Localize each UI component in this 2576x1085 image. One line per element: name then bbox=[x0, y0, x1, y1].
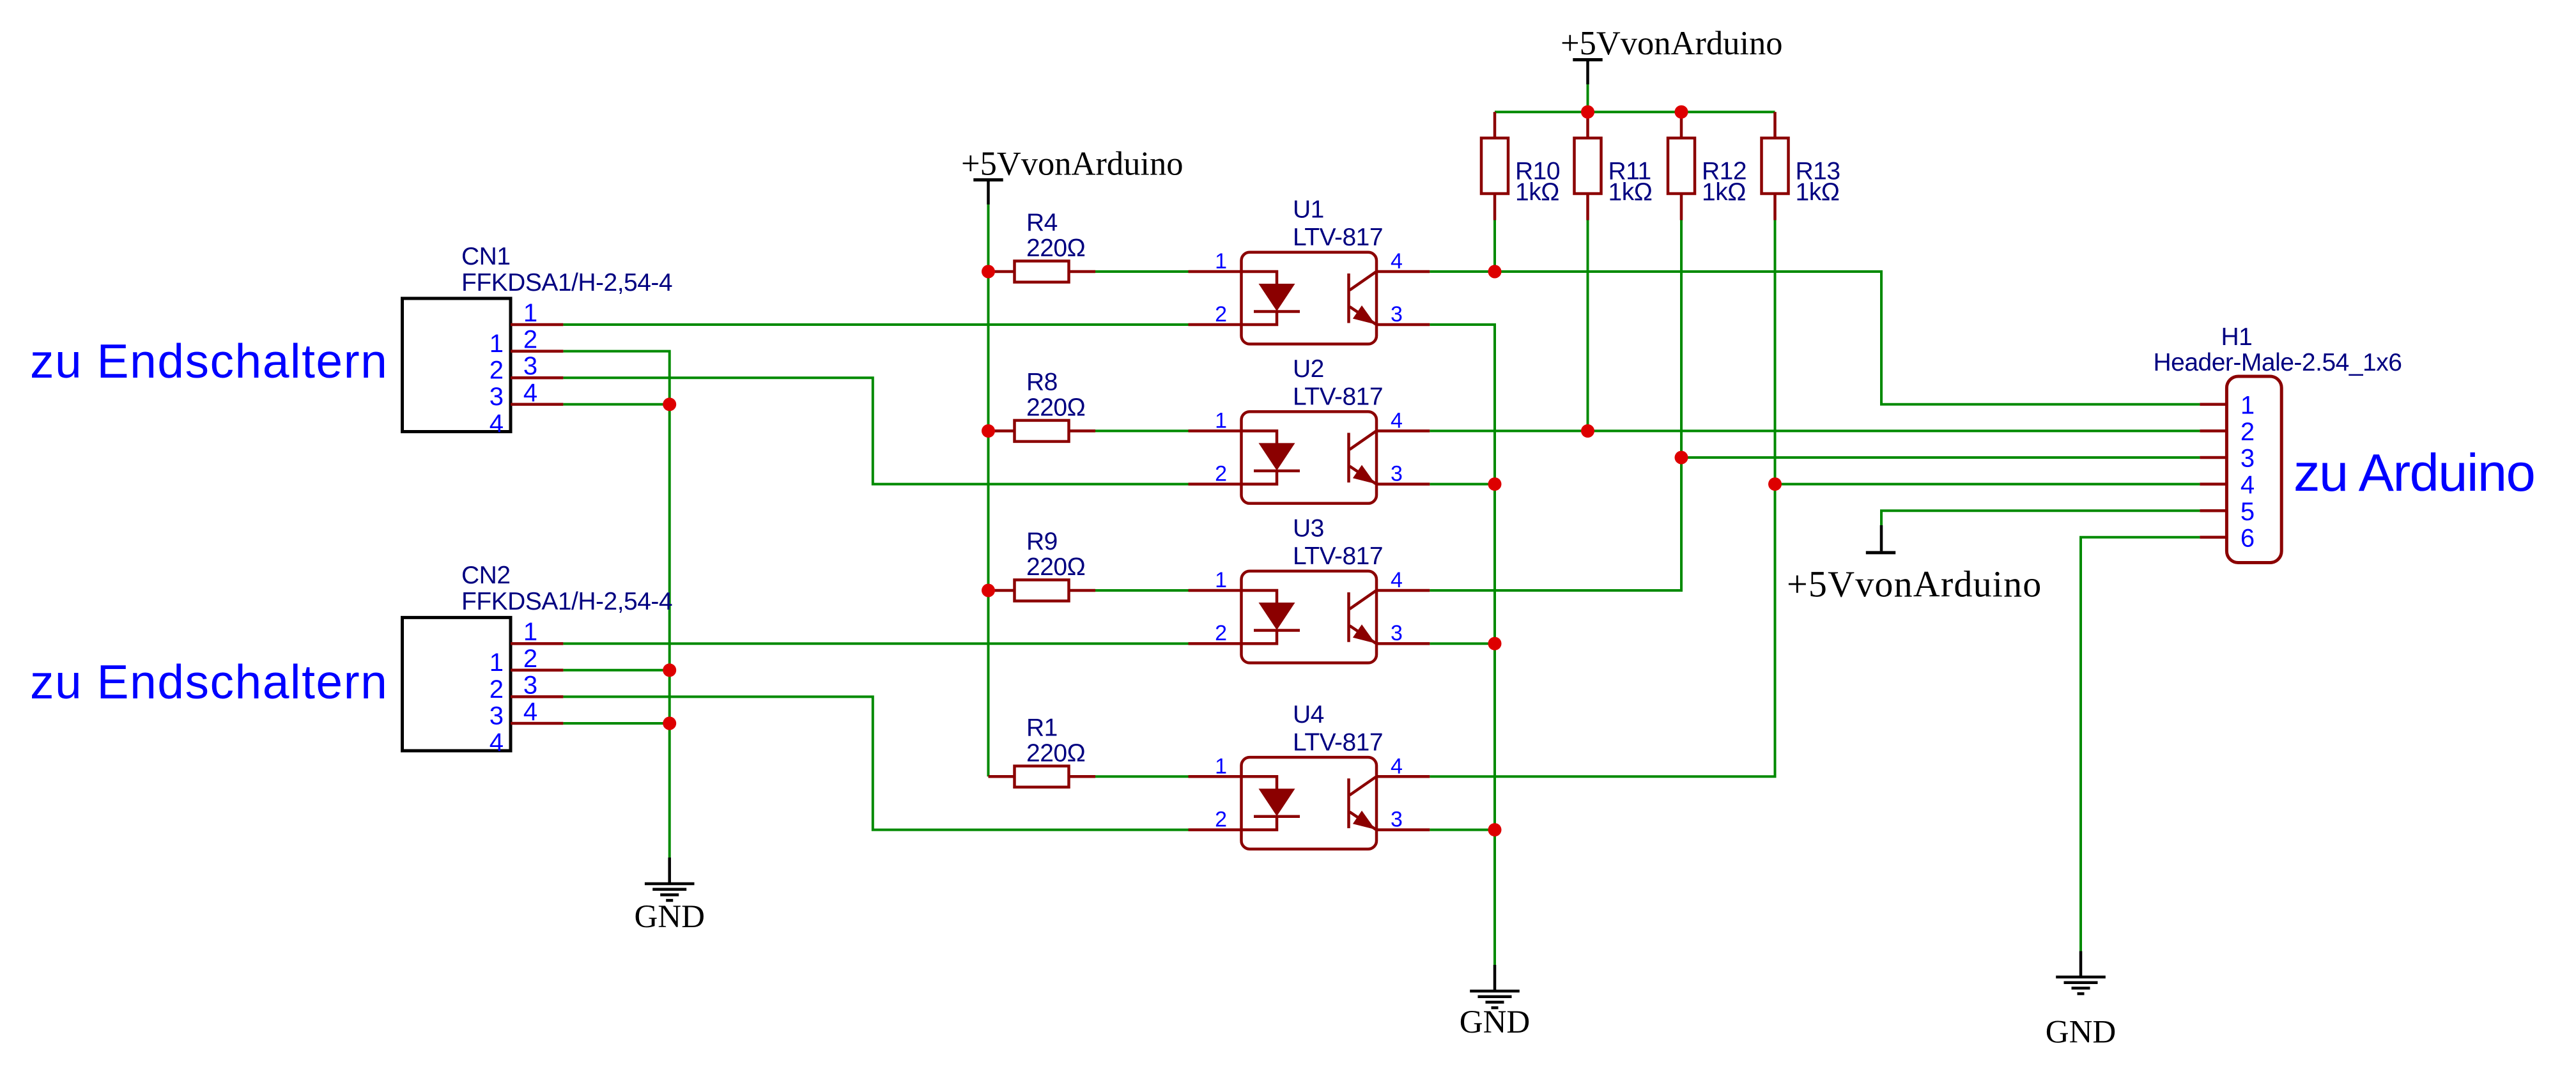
resistor R4 220&#937; (horizontal) bbox=[989, 261, 1096, 282]
svg-text:2: 2 bbox=[1215, 462, 1227, 486]
junction GND rail / U4 pin3 bbox=[1488, 823, 1502, 836]
label R1 value bbox=[1026, 714, 1085, 767]
svg-text:220Ω: 220Ω bbox=[1026, 394, 1085, 422]
wire top +5V stub bbox=[1587, 84, 1589, 112]
svg-text:1: 1 bbox=[1215, 754, 1227, 778]
wire R10 lower lead to U1 pin4 net bbox=[1493, 220, 1496, 272]
svg-text:2: 2 bbox=[1215, 302, 1227, 327]
svg-text:4: 4 bbox=[1391, 568, 1403, 592]
svg-text:zu Endschaltern: zu Endschaltern bbox=[30, 655, 388, 709]
wire R1 out to U4 pin1 bbox=[1095, 775, 1189, 778]
svg-text:4: 4 bbox=[1391, 249, 1403, 273]
junction GND rail / U2 pin3 bbox=[1488, 477, 1502, 491]
svg-text:3: 3 bbox=[1391, 462, 1403, 486]
pin leads U4 bbox=[1189, 776, 1430, 829]
svg-text:R4: R4 bbox=[1026, 209, 1058, 236]
svg-text:4: 4 bbox=[523, 379, 537, 407]
svg-text:U1: U1 bbox=[1293, 196, 1324, 224]
pin leads U2 bbox=[1189, 431, 1430, 484]
wire U3 pin4 net to H1 pin3 bbox=[1430, 458, 2200, 590]
resistor R12 1k&#937; (vertical) bbox=[1668, 112, 1695, 220]
pin leads U3 bbox=[1189, 590, 1430, 643]
junction +5V rail / R8 bbox=[982, 424, 995, 438]
label R10 value bbox=[1515, 158, 1560, 206]
label R9 value bbox=[1026, 528, 1085, 581]
svg-text:+5VvonArduino: +5VvonArduino bbox=[1787, 563, 2042, 604]
svg-text:1: 1 bbox=[1215, 568, 1227, 592]
svg-text:GND: GND bbox=[634, 899, 705, 935]
wire left GND stub (black) bbox=[668, 858, 671, 884]
svg-text:CN1: CN1 bbox=[461, 243, 511, 270]
wire R4 out to U1 pin1 bbox=[1095, 270, 1189, 273]
pin leads CN1 bbox=[511, 325, 563, 404]
label U1 LTV-817 bbox=[1293, 196, 1383, 252]
wire U4 pin4 net to H1 pin4 bbox=[1430, 484, 2200, 777]
wire U1 pin4 net to H1 pin1 bbox=[1430, 272, 2200, 404]
optocoupler U1 LTV-817 bbox=[1242, 252, 1377, 344]
power flag +5VvonArduino mid-right (inverted) bbox=[1866, 525, 1895, 553]
svg-text:R1: R1 bbox=[1026, 714, 1058, 742]
wire CN1 pin4 to GND rail bbox=[563, 403, 669, 406]
resistor R1 220&#937; (horizontal) bbox=[989, 766, 1096, 787]
wire CN1 pin1 to U1 pin2 bbox=[563, 323, 1188, 326]
pin numbers CN1 bbox=[490, 299, 537, 438]
junction top bus / R12 bbox=[1675, 105, 1688, 119]
svg-text:2: 2 bbox=[2241, 418, 2255, 446]
svg-text:1: 1 bbox=[523, 299, 537, 327]
svg-text:220Ω: 220Ω bbox=[1026, 235, 1085, 262]
junction GND rail / U3 pin3 bbox=[1488, 637, 1502, 650]
svg-text:220Ω: 220Ω bbox=[1026, 553, 1085, 581]
svg-text:LTV-817: LTV-817 bbox=[1293, 542, 1383, 570]
pin numbers CN2 bbox=[490, 618, 537, 757]
svg-text:4: 4 bbox=[2241, 471, 2255, 499]
svg-text:FFKDSA1/H-2,54-4: FFKDSA1/H-2,54-4 bbox=[461, 269, 672, 296]
wire H1 pin5 to +5V flag bbox=[1881, 511, 2200, 525]
label R13 value bbox=[1796, 158, 1840, 206]
wire CN2 pin1 to U3 pin2 bbox=[563, 642, 1188, 645]
svg-text:1: 1 bbox=[523, 618, 537, 646]
label U3 LTV-817 bbox=[1293, 515, 1383, 571]
svg-text:R8: R8 bbox=[1026, 369, 1058, 396]
svg-text:2: 2 bbox=[523, 326, 537, 354]
power flag +5VvonArduino left bbox=[973, 180, 1003, 205]
svg-text:Header-Male-2.54_1x6: Header-Male-2.54_1x6 bbox=[2154, 349, 2402, 376]
wire CN1 pin2 to GND rail corner bbox=[563, 351, 669, 858]
svg-text:4: 4 bbox=[1391, 754, 1403, 778]
svg-text:CN2: CN2 bbox=[461, 562, 511, 589]
label U4 LTV-817 bbox=[1293, 701, 1383, 757]
svg-text:R9: R9 bbox=[1026, 528, 1058, 555]
connector CN2 FFKDSA1/H-2,54-4 bbox=[403, 617, 511, 751]
svg-text:2: 2 bbox=[490, 357, 504, 385]
junction R13 / H1 pin4 net bbox=[1768, 477, 1782, 491]
svg-text:GND: GND bbox=[1460, 1004, 1531, 1040]
svg-text:4: 4 bbox=[523, 698, 537, 726]
pin leads H1 bbox=[2200, 404, 2226, 537]
svg-text:1: 1 bbox=[1215, 249, 1227, 273]
wire R11 lower lead to U2 pin4 net bbox=[1587, 220, 1589, 431]
junction GND rail / CN1 pin4 bbox=[663, 397, 676, 411]
svg-text:1: 1 bbox=[490, 649, 504, 677]
pin numbers U2 bbox=[1215, 408, 1403, 486]
svg-text:3: 3 bbox=[1391, 808, 1403, 832]
resistor R10 1k&#937; (vertical) bbox=[1481, 112, 1508, 220]
ground left bbox=[645, 884, 695, 900]
wire top +5V bus over R10-R13 bbox=[1495, 111, 1775, 113]
junction +5V top bus feed bbox=[1581, 105, 1594, 119]
optocoupler U3 LTV-817 bbox=[1242, 571, 1377, 663]
junction R10 / U1 pin4 net bbox=[1488, 265, 1502, 279]
wire U1 pin3 to middle GND rail bbox=[1430, 325, 1495, 965]
svg-text:3: 3 bbox=[490, 383, 504, 411]
svg-text:1kΩ: 1kΩ bbox=[1796, 179, 1840, 206]
wire U2 pin3 to GND rail bbox=[1430, 483, 1495, 486]
label R4 value bbox=[1026, 209, 1085, 262]
junction R11 / U2 pin4 net bbox=[1581, 424, 1594, 438]
label R8 value bbox=[1026, 369, 1085, 422]
junction R12 / H1 pin3 net bbox=[1675, 451, 1688, 465]
svg-text:3: 3 bbox=[490, 702, 504, 730]
connector CN1 FFKDSA1/H-2,54-4 bbox=[403, 298, 511, 432]
optocoupler U2 LTV-817 bbox=[1242, 412, 1377, 504]
svg-text:LTV-817: LTV-817 bbox=[1293, 728, 1383, 756]
label U2 LTV-817 bbox=[1293, 355, 1383, 411]
pin numbers U3 bbox=[1215, 568, 1403, 645]
svg-text:zu Arduino: zu Arduino bbox=[2294, 443, 2534, 502]
svg-text:H1: H1 bbox=[2221, 323, 2253, 351]
svg-text:3: 3 bbox=[1391, 621, 1403, 645]
svg-text:1kΩ: 1kΩ bbox=[1608, 179, 1653, 206]
svg-text:LTV-817: LTV-817 bbox=[1293, 224, 1383, 251]
svg-text:+5VvonArduino: +5VvonArduino bbox=[1561, 25, 1783, 62]
pin numbers H1 bbox=[2241, 391, 2255, 552]
pin numbers U1 bbox=[1215, 249, 1403, 327]
wire right GND stub (black) bbox=[2079, 951, 2083, 978]
svg-text:1: 1 bbox=[490, 330, 504, 358]
svg-text:zu Endschaltern: zu Endschaltern bbox=[30, 334, 388, 388]
svg-text:4: 4 bbox=[490, 728, 504, 757]
wire CN1 pin3 jog to U2 pin2 bbox=[563, 378, 1188, 484]
wire CN2 pin2 to GND rail bbox=[563, 669, 669, 672]
svg-text:U2: U2 bbox=[1293, 355, 1324, 383]
svg-text:FFKDSA1/H-2,54-4: FFKDSA1/H-2,54-4 bbox=[461, 588, 672, 615]
pin leads U1 bbox=[1189, 272, 1430, 325]
svg-text:2: 2 bbox=[1215, 621, 1227, 645]
label CN1 bbox=[461, 243, 672, 296]
junction GND rail / CN2 pin4 bbox=[663, 717, 676, 730]
wire U4 pin3 to GND rail bbox=[1430, 829, 1495, 831]
wire middle GND stub (black) bbox=[1493, 965, 1497, 991]
label CN2 bbox=[461, 562, 672, 615]
pin numbers U4 bbox=[1215, 754, 1403, 831]
optocoupler U4 LTV-817 bbox=[1242, 757, 1377, 849]
svg-text:1kΩ: 1kΩ bbox=[1515, 179, 1559, 206]
wire U2 pin4 net to H1 pin2 bbox=[1430, 429, 2200, 432]
ground right bbox=[2056, 977, 2106, 994]
svg-text:LTV-817: LTV-817 bbox=[1293, 383, 1383, 410]
svg-text:4: 4 bbox=[490, 410, 504, 438]
power flag +5VvonArduino top bbox=[1573, 60, 1602, 85]
junction +5V rail / R9 bbox=[982, 584, 995, 597]
wire CN2 pin4 to GND rail bbox=[563, 722, 669, 725]
label H1 bbox=[2154, 323, 2402, 376]
svg-text:GND: GND bbox=[2046, 1015, 2117, 1050]
svg-text:3: 3 bbox=[1391, 302, 1403, 327]
svg-text:3: 3 bbox=[2241, 445, 2255, 473]
svg-text:4: 4 bbox=[1391, 408, 1403, 433]
wire CN2 pin3 jog to U4 pin2 bbox=[563, 696, 1188, 829]
header H1 Header-Male-2.54_1x6 bbox=[2226, 376, 2281, 563]
resistor R9 220&#937; (horizontal) bbox=[989, 580, 1096, 601]
wire R8 out to U2 pin1 bbox=[1095, 429, 1189, 432]
label R11 value bbox=[1608, 158, 1653, 206]
svg-text:U3: U3 bbox=[1293, 515, 1324, 542]
svg-text:U4: U4 bbox=[1293, 701, 1324, 728]
wire +5V left rail bbox=[987, 204, 990, 776]
svg-text:1: 1 bbox=[2241, 391, 2255, 419]
svg-text:6: 6 bbox=[2241, 524, 2255, 552]
svg-text:1kΩ: 1kΩ bbox=[1702, 179, 1746, 206]
pin leads CN2 bbox=[511, 643, 563, 723]
svg-text:3: 3 bbox=[523, 671, 537, 699]
svg-text:1: 1 bbox=[1215, 408, 1227, 433]
junction +5V rail / R4 bbox=[982, 265, 995, 279]
junction GND rail / CN2 pin2 bbox=[663, 663, 676, 677]
label R12 value bbox=[1702, 158, 1747, 206]
resistor R11 1k&#937; (vertical) bbox=[1575, 112, 1601, 220]
resistor R13 1k&#937; (vertical) bbox=[1762, 112, 1789, 220]
wire U3 pin3 to GND rail bbox=[1430, 642, 1495, 645]
svg-text:5: 5 bbox=[2241, 498, 2255, 526]
wire H1 pin6 to right GND bbox=[2081, 537, 2200, 951]
svg-text:220Ω: 220Ω bbox=[1026, 740, 1085, 767]
svg-text:2: 2 bbox=[490, 675, 504, 704]
svg-text:+5VvonArduino: +5VvonArduino bbox=[961, 146, 1184, 183]
resistor R8 220&#937; (horizontal) bbox=[989, 420, 1096, 442]
ground middle bbox=[1470, 991, 1520, 1008]
wire R9 out to U3 pin1 bbox=[1095, 589, 1189, 592]
svg-text:2: 2 bbox=[1215, 808, 1227, 832]
wire R13 lower lead bbox=[1774, 220, 1777, 484]
svg-text:2: 2 bbox=[523, 645, 537, 673]
wire R12 lower lead bbox=[1680, 220, 1683, 458]
svg-text:3: 3 bbox=[523, 352, 537, 380]
